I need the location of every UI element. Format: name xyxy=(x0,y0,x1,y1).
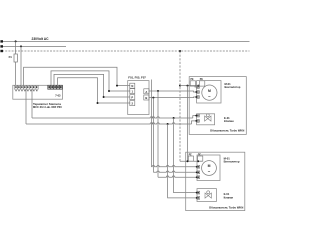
svg-text:Обогреватель Turbo WKN: Обогреватель Turbo WKN xyxy=(210,128,244,132)
svg-text:Вентилятор: Вентилятор xyxy=(225,85,241,89)
svg-text:MCC 30.1 Lab. N0F P30: MCC 30.1 Lab. N0F P30 xyxy=(33,105,62,109)
svg-text:M: M xyxy=(208,89,211,93)
svg-text:N: N xyxy=(131,84,133,88)
svg-text:Вентилятор: Вентилятор xyxy=(224,160,240,164)
svg-text:Клапан: Клапан xyxy=(224,195,234,199)
svg-text:Клапан: Клапан xyxy=(224,119,234,123)
svg-text:7-03: 7-03 xyxy=(55,93,61,97)
svg-text:PE: PE xyxy=(191,79,195,81)
svg-text:B: B xyxy=(145,96,147,100)
svg-text:230Volt AC: 230Volt AC xyxy=(32,37,50,41)
svg-text:F1: F1 xyxy=(9,55,13,59)
svg-text:F01, F05, F07: F01, F05, F07 xyxy=(128,75,146,79)
svg-text:PE: PE xyxy=(189,154,193,156)
svg-text:A: A xyxy=(145,90,147,94)
svg-text:P: P xyxy=(131,96,133,100)
svg-text:M: M xyxy=(208,164,211,168)
svg-text:Обогреватель Turbo WKN: Обогреватель Turbo WKN xyxy=(209,205,243,209)
